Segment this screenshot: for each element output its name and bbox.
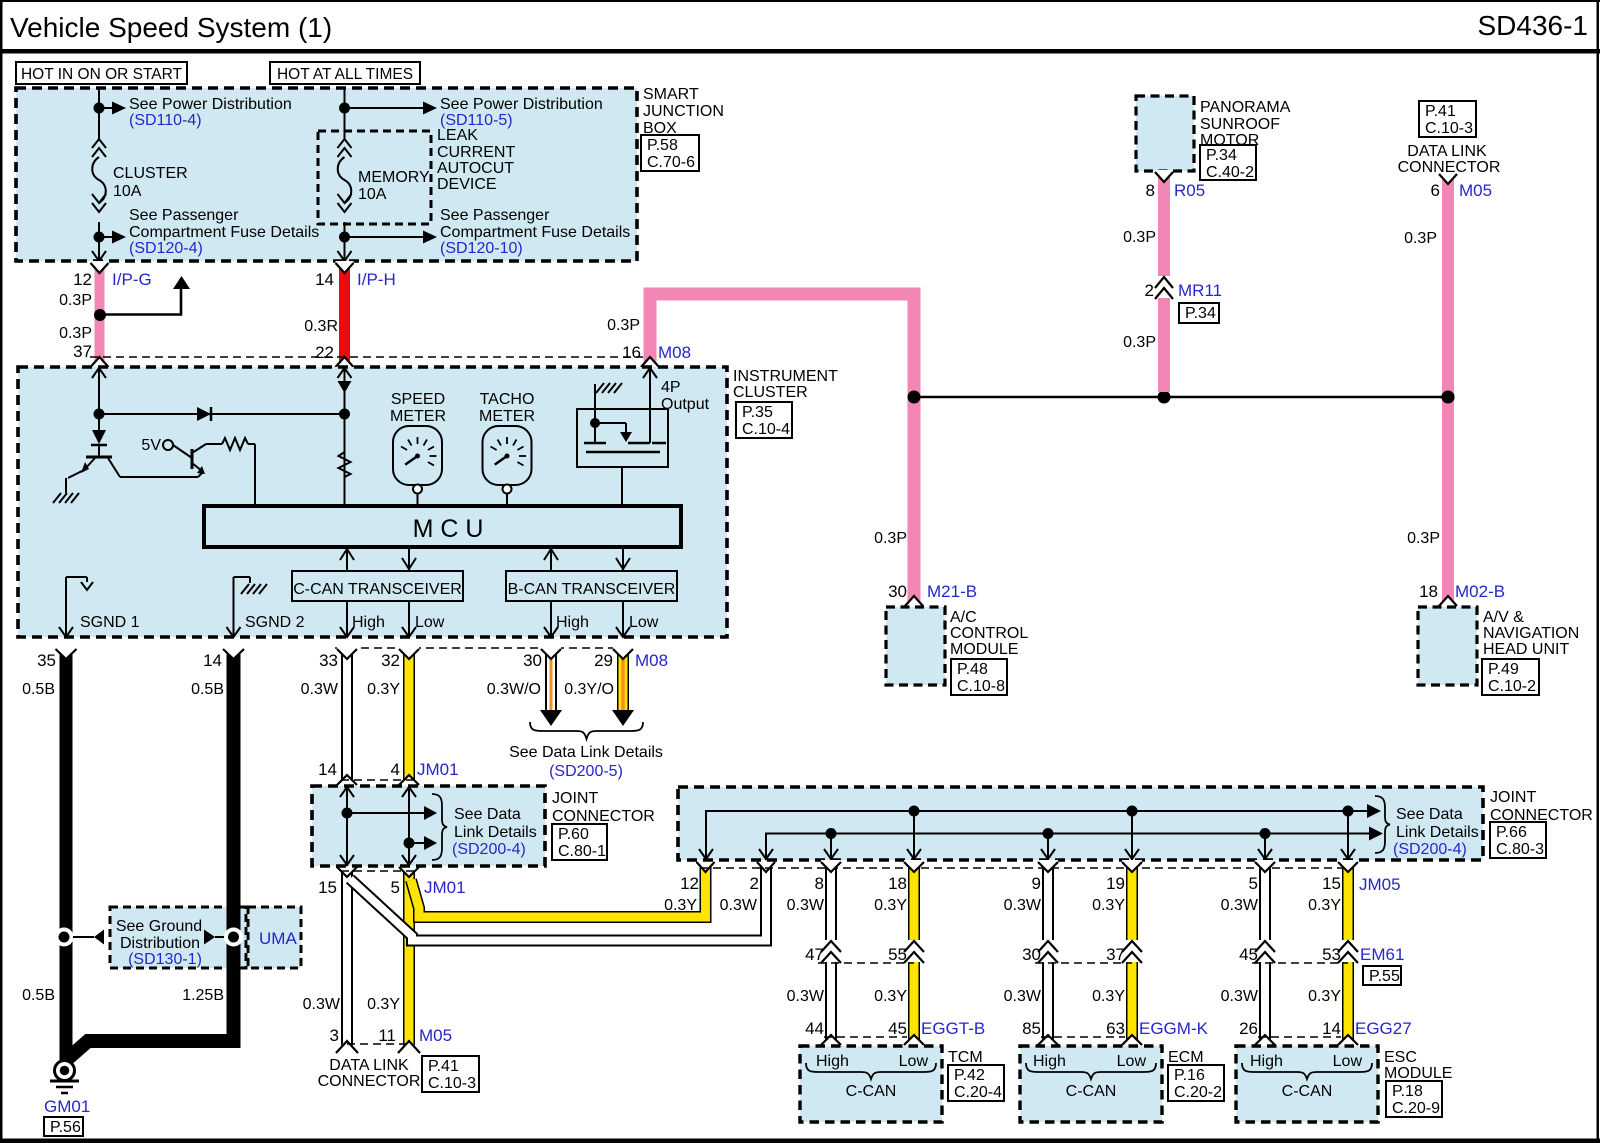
svg-text:High: High xyxy=(1033,1053,1066,1070)
svg-text:Link Details: Link Details xyxy=(454,824,537,841)
svg-text:SUNROOF: SUNROOF xyxy=(1200,116,1280,133)
svg-text:0.3W: 0.3W xyxy=(1221,897,1259,914)
svg-text:P.49: P.49 xyxy=(1488,661,1519,678)
svg-text:AUTOCUT: AUTOCUT xyxy=(437,160,514,177)
svg-text:MR11: MR11 xyxy=(1178,281,1222,300)
svg-text:0.3P: 0.3P xyxy=(1404,230,1437,247)
svg-text:0.3Y: 0.3Y xyxy=(1308,897,1341,914)
svg-text:63: 63 xyxy=(1106,1019,1125,1038)
svg-text:C.20-9: C.20-9 xyxy=(1392,1100,1440,1117)
svg-text:0.3W: 0.3W xyxy=(720,897,758,914)
svg-text:High: High xyxy=(556,614,589,631)
svg-text:0.3W: 0.3W xyxy=(1221,988,1259,1005)
svg-text:0.3R: 0.3R xyxy=(304,318,338,335)
svg-text:0.3W/O: 0.3W/O xyxy=(487,681,541,698)
svg-text:0.3P: 0.3P xyxy=(1123,229,1156,246)
svg-text:See Data Link Details: See Data Link Details xyxy=(509,744,663,761)
svg-text:C.80-1: C.80-1 xyxy=(558,843,606,860)
svg-text:See Passenger: See Passenger xyxy=(129,207,239,224)
svg-text:METER: METER xyxy=(390,408,446,425)
svg-text:45: 45 xyxy=(1239,945,1258,964)
svg-text:22: 22 xyxy=(315,343,334,362)
svg-text:16: 16 xyxy=(622,343,641,362)
svg-text:C.10-8: C.10-8 xyxy=(957,678,1005,695)
svg-text:0.3Y: 0.3Y xyxy=(367,681,400,698)
svg-text:47: 47 xyxy=(805,945,824,964)
svg-text:DATA LINK: DATA LINK xyxy=(329,1057,409,1074)
svg-text:0.5B: 0.5B xyxy=(191,681,224,698)
svg-text:(SD200-4): (SD200-4) xyxy=(1393,841,1467,858)
svg-text:10A: 10A xyxy=(358,186,387,203)
svg-text:CURRENT: CURRENT xyxy=(437,144,515,161)
svg-text:HOT IN ON OR START: HOT IN ON OR START xyxy=(21,66,183,83)
svg-text:M08: M08 xyxy=(635,651,668,670)
svg-text:C.10-3: C.10-3 xyxy=(428,1075,476,1092)
svg-text:P.42: P.42 xyxy=(954,1067,985,1084)
svg-text:DATA LINK: DATA LINK xyxy=(1407,143,1487,160)
svg-text:JOINT: JOINT xyxy=(1490,789,1536,806)
svg-text:JUNCTION: JUNCTION xyxy=(643,103,724,120)
svg-text:37: 37 xyxy=(73,342,92,361)
svg-text:P.34: P.34 xyxy=(1185,305,1216,322)
svg-text:(SD120-4): (SD120-4) xyxy=(129,240,203,257)
svg-text:0.3W: 0.3W xyxy=(301,681,339,698)
svg-text:18: 18 xyxy=(888,874,907,893)
svg-text:33: 33 xyxy=(319,651,338,670)
svg-text:5: 5 xyxy=(1249,874,1258,893)
svg-text:Output: Output xyxy=(661,396,710,413)
svg-text:UMA: UMA xyxy=(259,929,297,948)
svg-text:JM01: JM01 xyxy=(417,760,459,779)
svg-text:10A: 10A xyxy=(113,183,142,200)
svg-text:CONNECTOR: CONNECTOR xyxy=(552,808,655,825)
svg-text:0.3W: 0.3W xyxy=(1004,897,1042,914)
svg-text:35: 35 xyxy=(37,651,56,670)
svg-text:0.3Y: 0.3Y xyxy=(664,897,697,914)
svg-text:See Data: See Data xyxy=(454,806,521,823)
svg-text:DEVICE: DEVICE xyxy=(437,176,497,193)
svg-text:0.5B: 0.5B xyxy=(22,681,55,698)
svg-text:GM01: GM01 xyxy=(44,1097,90,1116)
svg-text:C.10-3: C.10-3 xyxy=(1425,120,1473,137)
svg-text:0.3Y: 0.3Y xyxy=(874,897,907,914)
svg-text:INSTRUMENT: INSTRUMENT xyxy=(733,368,838,385)
svg-text:C.80-3: C.80-3 xyxy=(1496,841,1544,858)
svg-text:CONNECTOR: CONNECTOR xyxy=(318,1073,421,1090)
svg-text:45: 45 xyxy=(888,1019,907,1038)
svg-text:High: High xyxy=(816,1053,849,1070)
svg-text:M05: M05 xyxy=(1459,181,1492,200)
svg-text:TCM: TCM xyxy=(948,1049,983,1066)
svg-text:M05: M05 xyxy=(419,1026,452,1045)
svg-text:37: 37 xyxy=(1106,945,1125,964)
svg-text:C.40-2: C.40-2 xyxy=(1206,164,1254,181)
svg-text:SPEED: SPEED xyxy=(391,391,445,408)
svg-text:0.3Y: 0.3Y xyxy=(874,988,907,1005)
svg-text:0.3W: 0.3W xyxy=(787,897,825,914)
svg-text:EM61: EM61 xyxy=(1360,945,1404,964)
svg-text:(SD200-4): (SD200-4) xyxy=(452,841,526,858)
svg-text:2: 2 xyxy=(1145,281,1154,300)
svg-text:TACHO: TACHO xyxy=(480,391,535,408)
svg-text:I/P-H: I/P-H xyxy=(357,270,396,289)
svg-text:Low: Low xyxy=(1117,1053,1147,1070)
svg-text:HOT AT ALL TIMES: HOT AT ALL TIMES xyxy=(277,66,413,83)
svg-text:See Passenger: See Passenger xyxy=(440,207,550,224)
svg-text:1.25B: 1.25B xyxy=(182,987,224,1004)
svg-text:ESC: ESC xyxy=(1384,1049,1417,1066)
svg-text:44: 44 xyxy=(805,1019,824,1038)
svg-text:See Power Distribution: See Power Distribution xyxy=(129,96,292,113)
svg-text:Compartment Fuse Details: Compartment Fuse Details xyxy=(129,224,319,241)
svg-text:P.35: P.35 xyxy=(742,404,773,421)
svg-text:SGND 2: SGND 2 xyxy=(245,614,305,631)
svg-text:P.18: P.18 xyxy=(1392,1083,1423,1100)
svg-text:CLUSTER: CLUSTER xyxy=(113,165,188,182)
svg-text:Distribution: Distribution xyxy=(120,935,200,952)
svg-text:METER: METER xyxy=(479,408,535,425)
svg-text:12: 12 xyxy=(680,874,699,893)
svg-text:(SD130-1): (SD130-1) xyxy=(128,951,202,968)
svg-text:C.10-2: C.10-2 xyxy=(1488,678,1536,695)
svg-text:30: 30 xyxy=(1022,945,1041,964)
svg-text:See Ground: See Ground xyxy=(116,918,202,935)
svg-text:0.3P: 0.3P xyxy=(59,292,92,309)
svg-text:C.10-4: C.10-4 xyxy=(742,421,790,438)
svg-text:11: 11 xyxy=(378,1026,396,1045)
svg-text:0.3Y: 0.3Y xyxy=(1092,988,1125,1005)
svg-text:P.66: P.66 xyxy=(1496,824,1527,841)
svg-text:0.3Y/O: 0.3Y/O xyxy=(564,681,614,698)
svg-text:P.34: P.34 xyxy=(1206,147,1237,164)
svg-text:Vehicle Speed System (1): Vehicle Speed System (1) xyxy=(10,12,332,43)
svg-text:A/C: A/C xyxy=(950,609,977,626)
svg-text:30: 30 xyxy=(888,582,907,601)
svg-text:0.3P: 0.3P xyxy=(59,325,92,342)
svg-text:HEAD UNIT: HEAD UNIT xyxy=(1483,641,1569,658)
svg-text:EGGT-B: EGGT-B xyxy=(921,1019,985,1038)
svg-text:4P: 4P xyxy=(661,379,681,396)
svg-text:8: 8 xyxy=(815,874,824,893)
svg-text:Low: Low xyxy=(415,614,445,631)
svg-text:C-CAN TRANSCEIVER: C-CAN TRANSCEIVER xyxy=(293,581,462,598)
svg-text:53: 53 xyxy=(1322,945,1341,964)
svg-text:High: High xyxy=(352,614,385,631)
svg-text:C.20-2: C.20-2 xyxy=(1174,1084,1222,1101)
svg-text:M C U: M C U xyxy=(413,515,484,543)
svg-text:(SD120-10): (SD120-10) xyxy=(440,240,523,257)
svg-text:P.48: P.48 xyxy=(957,661,988,678)
svg-text:SGND 1: SGND 1 xyxy=(80,614,140,631)
svg-text:P.58: P.58 xyxy=(647,137,678,154)
svg-text:30: 30 xyxy=(523,651,542,670)
svg-text:0.3P: 0.3P xyxy=(1123,334,1156,351)
svg-text:0.3Y: 0.3Y xyxy=(367,996,400,1013)
svg-text:EGGM-K: EGGM-K xyxy=(1139,1019,1209,1038)
svg-text:CONTROL: CONTROL xyxy=(950,625,1028,642)
svg-text:(SD110-4): (SD110-4) xyxy=(129,112,202,129)
svg-text:0.3P: 0.3P xyxy=(1407,530,1440,547)
svg-text:High: High xyxy=(1250,1053,1283,1070)
svg-text:0.3Y: 0.3Y xyxy=(1092,897,1125,914)
svg-text:0.3P: 0.3P xyxy=(874,530,907,547)
svg-text:See Data: See Data xyxy=(1396,806,1463,823)
svg-text:8: 8 xyxy=(1146,181,1155,200)
svg-text:C.20-4: C.20-4 xyxy=(954,1084,1002,1101)
svg-text:Compartment Fuse Details: Compartment Fuse Details xyxy=(440,224,630,241)
svg-text:15: 15 xyxy=(318,878,337,897)
svg-text:5: 5 xyxy=(391,878,400,897)
svg-text:18: 18 xyxy=(1419,582,1438,601)
svg-text:Low: Low xyxy=(1333,1053,1363,1070)
svg-text:LEAK: LEAK xyxy=(437,127,478,144)
svg-text:SD436-1: SD436-1 xyxy=(1477,10,1588,41)
svg-text:SMART: SMART xyxy=(643,86,699,103)
svg-text:P.41: P.41 xyxy=(428,1058,459,1075)
svg-text:55: 55 xyxy=(888,945,907,964)
svg-text:C.70-6: C.70-6 xyxy=(647,154,695,171)
svg-text:NAVIGATION: NAVIGATION xyxy=(1483,625,1579,642)
svg-text:14: 14 xyxy=(318,760,337,779)
svg-text:C-CAN: C-CAN xyxy=(1282,1083,1333,1100)
svg-text:A/V &: A/V & xyxy=(1483,609,1524,626)
svg-text:0.3W: 0.3W xyxy=(787,988,825,1005)
svg-text:85: 85 xyxy=(1022,1019,1041,1038)
svg-text:EGG27: EGG27 xyxy=(1355,1019,1412,1038)
svg-text:JM01: JM01 xyxy=(424,878,466,897)
svg-text:6: 6 xyxy=(1431,181,1440,200)
svg-text:29: 29 xyxy=(594,651,613,670)
svg-text:12: 12 xyxy=(73,270,92,289)
svg-text:Link Details: Link Details xyxy=(1396,824,1479,841)
svg-text:0.5B: 0.5B xyxy=(22,987,55,1004)
svg-text:M21-B: M21-B xyxy=(927,582,977,601)
svg-text:32: 32 xyxy=(381,651,400,670)
svg-text:26: 26 xyxy=(1239,1019,1258,1038)
svg-text:B-CAN TRANSCEIVER: B-CAN TRANSCEIVER xyxy=(508,581,676,598)
svg-text:15: 15 xyxy=(1322,874,1341,893)
svg-text:P.60: P.60 xyxy=(558,826,589,843)
svg-text:19: 19 xyxy=(1106,874,1125,893)
svg-text:P.16: P.16 xyxy=(1174,1067,1205,1084)
svg-text:JOINT: JOINT xyxy=(552,790,598,807)
svg-text:5V: 5V xyxy=(141,437,161,454)
svg-text:14: 14 xyxy=(203,651,222,670)
svg-text:M02-B: M02-B xyxy=(1455,582,1505,601)
svg-text:0.3W: 0.3W xyxy=(1004,988,1042,1005)
svg-text:Low: Low xyxy=(899,1053,929,1070)
svg-text:MODULE: MODULE xyxy=(950,641,1018,658)
svg-text:9: 9 xyxy=(1032,874,1041,893)
svg-text:MEMORY: MEMORY xyxy=(358,169,430,186)
svg-text:0.3W: 0.3W xyxy=(303,996,341,1013)
svg-text:P.55: P.55 xyxy=(1369,968,1400,985)
svg-text:0.3Y: 0.3Y xyxy=(1308,988,1341,1005)
svg-text:CLUSTER: CLUSTER xyxy=(733,384,808,401)
svg-text:3: 3 xyxy=(330,1026,339,1045)
svg-text:14: 14 xyxy=(315,270,334,289)
svg-text:Low: Low xyxy=(629,614,659,631)
svg-text:C-CAN: C-CAN xyxy=(1066,1083,1117,1100)
svg-text:14: 14 xyxy=(1322,1019,1341,1038)
svg-text:(SD200-5): (SD200-5) xyxy=(549,763,623,780)
svg-text:0.3P: 0.3P xyxy=(607,317,640,334)
svg-text:PANORAMA: PANORAMA xyxy=(1200,99,1291,116)
svg-text:4: 4 xyxy=(391,760,400,779)
svg-text:2: 2 xyxy=(750,874,759,893)
svg-text:MODULE: MODULE xyxy=(1384,1065,1452,1082)
svg-text:R05: R05 xyxy=(1174,181,1205,200)
svg-text:I/P-G: I/P-G xyxy=(112,270,152,289)
svg-text:M08: M08 xyxy=(658,343,691,362)
svg-text:JM05: JM05 xyxy=(1359,875,1401,894)
svg-text:See Power Distribution: See Power Distribution xyxy=(440,96,603,113)
svg-text:P.41: P.41 xyxy=(1425,103,1456,120)
svg-text:ECM: ECM xyxy=(1168,1049,1204,1066)
svg-text:P.56: P.56 xyxy=(50,1119,81,1136)
svg-text:C-CAN: C-CAN xyxy=(846,1083,897,1100)
